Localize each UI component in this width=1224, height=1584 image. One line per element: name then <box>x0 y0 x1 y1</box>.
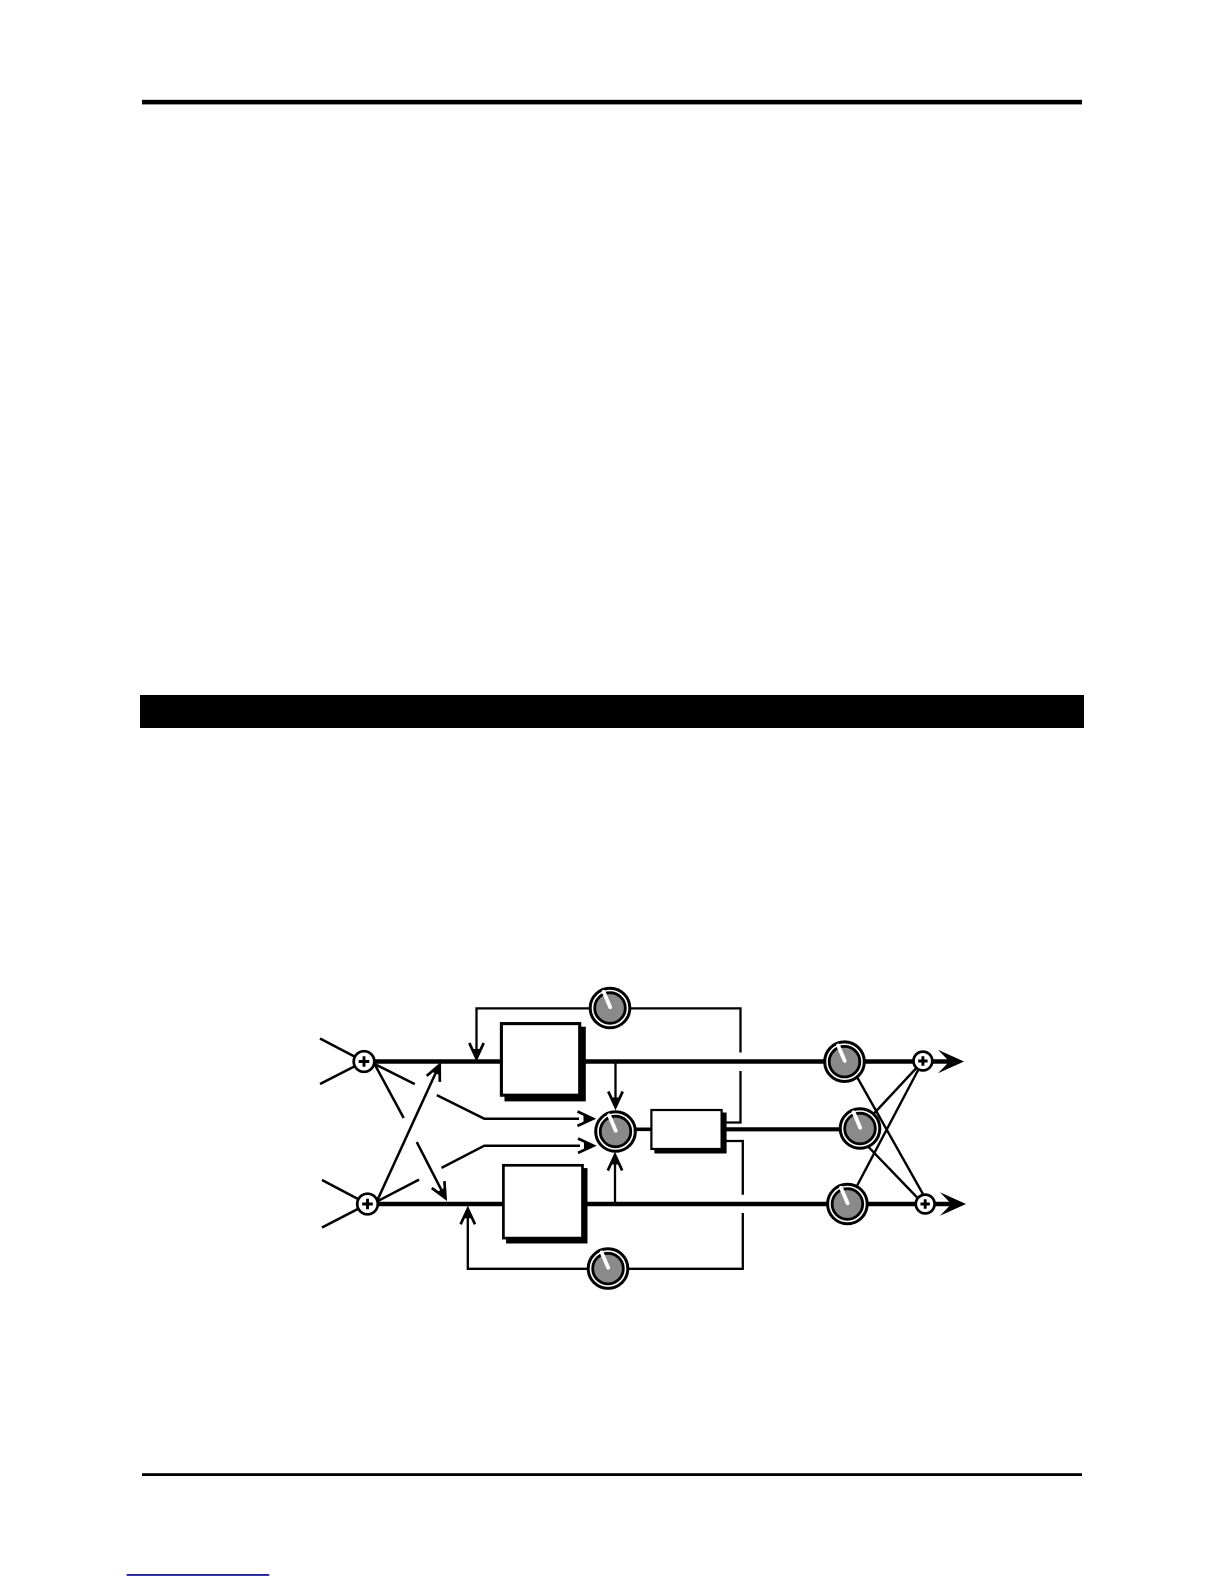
wire: mix line K5 to output node O2 <box>856 1134 925 1204</box>
arrow: head pointing up at center knob <box>608 1155 622 1171</box>
wire: input stub upper-left of node A <box>320 1039 364 1062</box>
wire: node A to center knob (diagonal with hop gap, bend, horizontal) <box>375 1064 579 1119</box>
wire: input stub lower-left of node B <box>322 1204 368 1228</box>
wire: input stub upper-left of node B <box>322 1180 368 1204</box>
wire: mix line K4 to output node O2 <box>850 1065 928 1204</box>
node O2 output summer <box>916 1195 935 1214</box>
wire: left input trunk (bottom channel) <box>368 1202 954 1207</box>
wire: top trunk tap down to center knob <box>614 1063 616 1104</box>
wire: node B to center knob (diagonal with hop gap, bend, horizontal) <box>376 1146 580 1202</box>
arrow: bottom feedback into bottom trunk (pointing up) <box>461 1209 475 1225</box>
LFO box shadow <box>654 1113 726 1154</box>
wire: top feedback loop (corner, through knob K1, right leg with hop gap, into LFO box) <box>477 1008 741 1122</box>
hyperlink underline <box>127 1574 270 1576</box>
node A input summer <box>354 1051 375 1072</box>
arrow: output L arrowhead <box>938 1050 964 1073</box>
wire: bottom feedback loop (corner, through knob K2, right leg with hop gap, into LFO box) <box>468 1141 743 1269</box>
wire: mix line K5 to output node O1 <box>860 1061 923 1129</box>
knob K4 top-right level <box>825 1042 865 1082</box>
header rule <box>142 100 1082 105</box>
arrow: head of cross line onto bottom trunk <box>432 1181 452 1201</box>
wire: left input trunk (top channel) <box>364 1059 951 1064</box>
delay box 1 <box>501 1024 579 1096</box>
knob K2 bottom feedback <box>588 1249 628 1289</box>
node O1 output summer <box>914 1052 933 1071</box>
wire: center knob to LFO box <box>616 1128 653 1132</box>
wire: bottom trunk tap up to center knob <box>614 1158 616 1203</box>
node B input summer <box>357 1194 378 1215</box>
delay box 2 shadow <box>506 1168 587 1243</box>
knob K3 center <box>596 1112 636 1152</box>
arrow: top feedback into top trunk (pointing down) <box>469 1043 483 1059</box>
wire: cross line node A to bottom trunk (two segments, hop gap) <box>375 1064 445 1195</box>
footer rule <box>142 1473 1082 1476</box>
section title bar <box>140 695 1084 728</box>
arrow: head into center knob lower input <box>578 1139 594 1153</box>
wire: mix line K6 to output node O1 <box>847 1061 923 1204</box>
arrow: head into center knob upper input <box>578 1112 594 1126</box>
wire: LFO box output to mid-right knob K5 <box>724 1127 860 1131</box>
LFO box <box>651 1110 721 1149</box>
delay box 1 shadow <box>505 1027 586 1102</box>
knob K1 top feedback <box>590 988 630 1028</box>
wire: input stub lower-left of node A <box>320 1062 364 1085</box>
delay box 2 <box>503 1165 582 1238</box>
arrow: head pointing down at center knob <box>608 1092 622 1108</box>
wire: cross line node B to top trunk <box>377 1069 438 1201</box>
knob K6 bottom-right level <box>828 1184 868 1224</box>
arrow: output R arrowhead <box>940 1192 966 1215</box>
arrow: head of cross line onto top trunk <box>427 1062 447 1082</box>
knob K5 mid-right level <box>840 1109 880 1149</box>
